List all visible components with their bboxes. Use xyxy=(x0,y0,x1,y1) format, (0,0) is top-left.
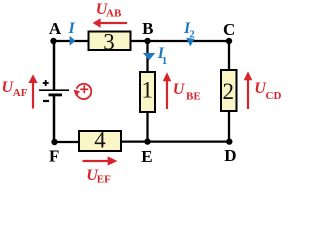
svg-text:EF: EF xyxy=(97,173,111,185)
node E xyxy=(144,138,150,144)
svg-text:4: 4 xyxy=(94,127,106,152)
node F xyxy=(51,139,57,145)
svg-text:BE: BE xyxy=(186,91,201,103)
voltage U_EF label xyxy=(86,167,111,185)
svg-text:CD: CD xyxy=(266,90,282,102)
resistor box 2 xyxy=(221,70,237,111)
svg-text:3: 3 xyxy=(103,29,115,54)
node D xyxy=(226,138,232,144)
wire box3 to C through B (top right) xyxy=(131,40,230,42)
voltage U_BE label xyxy=(173,81,201,103)
node C xyxy=(226,38,232,44)
svg-text:D: D xyxy=(224,146,236,165)
voltage U_AB arrow (red, leftward above box3) xyxy=(93,18,127,27)
node A xyxy=(50,38,56,44)
svg-text:B: B xyxy=(142,19,153,38)
wire A to box3 (top left) xyxy=(54,40,89,42)
voltage U_AB label xyxy=(96,1,122,20)
svg-text:A: A xyxy=(49,19,62,38)
svg-text:U: U xyxy=(173,81,186,98)
svg-text:2: 2 xyxy=(189,28,195,40)
svg-text:AB: AB xyxy=(106,8,122,20)
current I2 label xyxy=(183,20,195,40)
wire box2 down to D xyxy=(228,111,230,142)
wire box4 to D through E (bottom right) xyxy=(121,140,230,142)
voltage U_AF label xyxy=(2,79,28,99)
wire F to box4 (bottom left) xyxy=(54,141,79,143)
voltage U_BE arrow (red, upward right of box1) xyxy=(163,72,172,109)
current I2 arrow (blue, on wire B-C) xyxy=(186,38,194,47)
EMF source circular arrow symbol xyxy=(74,84,92,99)
battery plates xyxy=(39,90,69,95)
svg-text:I: I xyxy=(68,20,76,37)
svg-text:2: 2 xyxy=(223,79,235,104)
wire box1 down to E xyxy=(146,112,148,142)
resistor box 4 xyxy=(79,127,121,152)
wire A down to battery (left upper) xyxy=(53,41,56,90)
node B xyxy=(144,38,150,44)
resistor box 1 xyxy=(140,72,155,112)
voltage U_CD arrow (red, upward right of box2) xyxy=(244,71,253,109)
svg-text:1: 1 xyxy=(162,55,168,67)
svg-text:E: E xyxy=(141,147,152,166)
current I1 arrow (blue, on wire B-E) xyxy=(143,53,155,60)
current I arrow (blue, on wire A-B) xyxy=(70,36,76,46)
resistor box 3 xyxy=(89,29,131,54)
voltage U_CD label xyxy=(254,80,281,102)
voltage U_EF arrow (red, rightward below box4) xyxy=(83,156,118,165)
svg-text:1: 1 xyxy=(142,78,154,103)
wire battery down to F (left lower) xyxy=(53,95,56,142)
battery plus sign xyxy=(43,80,49,86)
svg-text:AF: AF xyxy=(13,87,28,99)
current I1 label xyxy=(157,45,167,67)
svg-text:C: C xyxy=(223,20,235,39)
svg-text:F: F xyxy=(49,147,59,166)
voltage U_AF arrow (red, upward left of battery) xyxy=(28,74,37,108)
wire C down to box2 xyxy=(228,41,230,70)
battery minus sign xyxy=(43,100,49,102)
wire B down to box1 xyxy=(146,41,148,72)
